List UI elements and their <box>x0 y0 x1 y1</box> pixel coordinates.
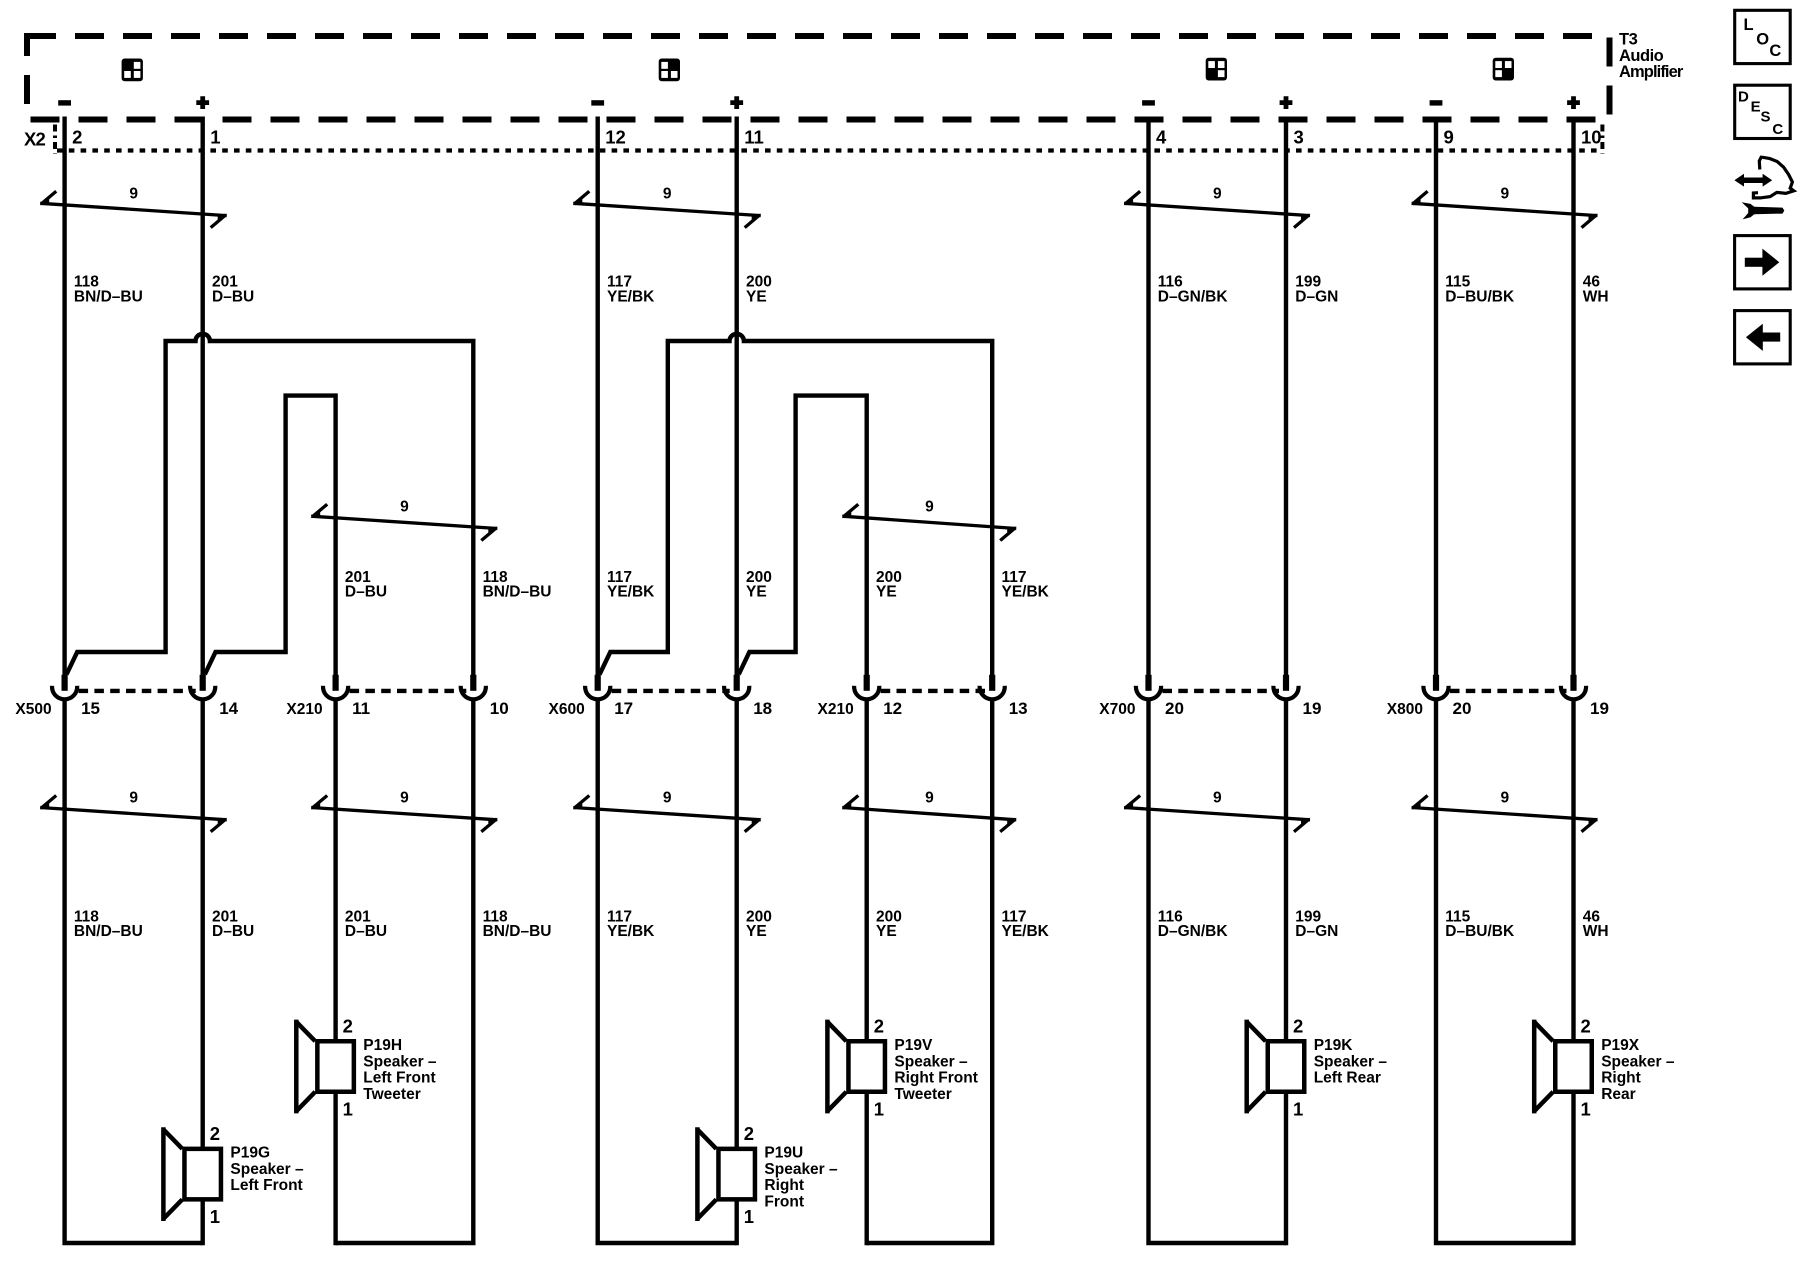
twisted pair symbol <box>40 191 228 227</box>
connector X600 <box>548 675 772 718</box>
speaker P19H symbol <box>296 1020 354 1114</box>
svg-text:Left Front: Left Front <box>230 1177 302 1194</box>
vehicle/service navigation icon <box>1734 157 1793 219</box>
wire 199 D-GN (T3 X2-3 down to connector) <box>1284 117 1288 677</box>
wire 46 WH (T3 X2-10 down to connector) <box>1571 117 1575 677</box>
back arrow navigation icon <box>1735 311 1791 364</box>
label 46 WH <box>1583 908 1609 940</box>
forward arrow navigation icon <box>1735 236 1791 289</box>
X800 mating face dashed line <box>1450 689 1567 693</box>
P19U name label <box>764 1145 838 1211</box>
wire P19V pin 1 to loop <box>865 1092 869 1246</box>
label 201 D-BU <box>212 908 254 940</box>
label 200 YE <box>746 569 772 601</box>
svg-text:WH: WH <box>1583 289 1609 306</box>
svg-text:2: 2 <box>210 1123 220 1144</box>
svg-text:Speaker –: Speaker – <box>894 1053 968 1070</box>
svg-text:YE: YE <box>876 584 897 601</box>
wire 200 YE (T3 X2-11 down to connector) <box>735 117 739 677</box>
svg-text:9: 9 <box>400 790 409 807</box>
svg-text:4: 4 <box>1156 127 1167 148</box>
svg-text:1: 1 <box>210 127 220 148</box>
wire P19G pin 1 to loop <box>200 1199 204 1245</box>
svg-text:YE/BK: YE/BK <box>607 584 655 601</box>
twisted pair symbol <box>40 796 228 832</box>
wire feed to P19V pin 2 <box>865 699 869 1042</box>
svg-text:1: 1 <box>744 1206 754 1227</box>
svg-text:2: 2 <box>1581 1016 1591 1037</box>
svg-text:11: 11 <box>744 127 764 148</box>
X210 mating face dashed line <box>881 689 986 693</box>
svg-text:YE/BK: YE/BK <box>607 923 655 940</box>
svg-text:18: 18 <box>753 699 772 718</box>
twisted pair symbol <box>842 796 1017 832</box>
wire return loop to P19H pin 1 <box>336 699 474 1244</box>
svg-text:BN/D–BU: BN/D–BU <box>483 923 552 940</box>
twisted pair symbol <box>1411 191 1598 227</box>
svg-text:Tweeter: Tweeter <box>894 1086 951 1103</box>
twisted pair symbol <box>311 796 498 832</box>
X210 pin 12 <box>854 675 879 700</box>
svg-text:9: 9 <box>1213 790 1222 807</box>
wire feed to P19K pin 2 <box>1284 699 1288 1042</box>
label 117 YE/BK <box>607 569 655 601</box>
svg-text:Front: Front <box>764 1194 804 1211</box>
svg-text:BN/D–BU: BN/D–BU <box>74 289 143 306</box>
svg-text:X210: X210 <box>286 701 322 718</box>
svg-text:9: 9 <box>663 186 672 203</box>
svg-text:D–GN: D–GN <box>1295 289 1338 306</box>
svg-text:S: S <box>1761 109 1771 126</box>
wire return loop to P19U pin 1 <box>598 699 737 1244</box>
svg-text:20: 20 <box>1453 699 1472 718</box>
svg-text:WH: WH <box>1583 923 1609 940</box>
twisted pair symbol <box>1411 796 1598 832</box>
svg-text:9: 9 <box>925 498 934 515</box>
svg-text:D–BU: D–BU <box>345 584 387 601</box>
svg-text:9: 9 <box>925 790 934 807</box>
wire 118 BN/D-BU (T3 X2-2 down to connector) <box>62 117 66 677</box>
svg-text:20: 20 <box>1165 699 1184 718</box>
svg-text:10: 10 <box>1581 127 1602 148</box>
svg-text:YE: YE <box>746 289 767 306</box>
svg-text:Speaker –: Speaker – <box>230 1161 304 1178</box>
svg-text:D–BU/BK: D–BU/BK <box>1445 289 1515 306</box>
wire 201 D-BU (T3 X2-1 down to connector) <box>200 117 204 677</box>
X210 pin 10 <box>461 675 486 700</box>
svg-text:2: 2 <box>343 1016 353 1037</box>
svg-text:P19U: P19U <box>764 1145 803 1162</box>
svg-text:1: 1 <box>210 1206 220 1227</box>
svg-text:Right: Right <box>764 1177 804 1194</box>
wire 115 D-BU/BK (T3 X2-9 down to connector) <box>1434 117 1438 677</box>
svg-text:1: 1 <box>343 1099 353 1120</box>
svg-text:C: C <box>1769 42 1781 60</box>
svg-text:Left Rear: Left Rear <box>1314 1070 1381 1087</box>
svg-text:P19V: P19V <box>894 1037 933 1054</box>
X700 pin 19 <box>1273 675 1298 700</box>
P19H name label <box>363 1037 437 1103</box>
twisted pair symbol <box>1124 191 1311 227</box>
wire P19U pin 1 to loop <box>735 1199 739 1245</box>
svg-text:Rear: Rear <box>1601 1086 1635 1103</box>
wire 117 YE/BK (T3 X2-12 down to connector) <box>596 117 600 677</box>
X600 pin 17 <box>585 675 610 700</box>
speaker position icon (front-right) <box>659 59 680 82</box>
speaker P19K symbol <box>1247 1020 1305 1114</box>
wire feed to P19G pin 2 <box>200 699 204 1150</box>
P19G name label <box>230 1145 304 1195</box>
svg-text:YE: YE <box>746 584 767 601</box>
svg-text:12: 12 <box>605 127 626 148</box>
label 200 YE <box>746 274 772 306</box>
polarity minus <box>1142 100 1155 105</box>
label 118 BN/D-BU <box>74 274 143 306</box>
speaker position icon (front-left) <box>122 59 143 82</box>
svg-text:X800: X800 <box>1387 701 1423 718</box>
svg-text:15: 15 <box>81 699 100 718</box>
svg-text:D: D <box>1738 89 1749 106</box>
polarity minus <box>58 100 71 105</box>
svg-text:19: 19 <box>1590 699 1609 718</box>
label 116 D-GN/BK <box>1158 274 1229 306</box>
amplifier T3 name label <box>1619 31 1684 82</box>
polarity plus <box>1280 96 1293 109</box>
svg-text:2: 2 <box>744 1123 754 1144</box>
label 201 D-BU <box>345 569 387 601</box>
label 200 YE <box>876 908 902 940</box>
X500 mating face dashed line <box>79 689 196 693</box>
svg-text:Speaker –: Speaker – <box>1601 1053 1675 1070</box>
svg-text:9: 9 <box>1500 790 1509 807</box>
X600 mating face dashed line <box>612 689 730 693</box>
label 115 D-BU/BK <box>1445 274 1515 306</box>
svg-text:D–BU: D–BU <box>212 289 254 306</box>
svg-text:D–GN/BK: D–GN/BK <box>1158 289 1229 306</box>
X210 pin 13 <box>980 675 1005 700</box>
X2 connector face dotted line <box>57 148 1600 152</box>
label 117 YE/BK <box>607 908 655 940</box>
svg-text:P19G: P19G <box>230 1145 270 1162</box>
svg-text:2: 2 <box>874 1016 884 1037</box>
svg-text:X2: X2 <box>24 129 46 150</box>
label 118 BN/D-BU <box>483 908 552 940</box>
svg-text:Speaker –: Speaker – <box>764 1161 838 1178</box>
speaker P19V symbol <box>827 1020 885 1114</box>
svg-text:YE: YE <box>746 923 767 940</box>
twisted pair symbol <box>311 504 498 540</box>
svg-text:D–BU: D–BU <box>212 923 254 940</box>
svg-text:1: 1 <box>874 1099 884 1120</box>
svg-text:11: 11 <box>352 699 370 718</box>
svg-text:1: 1 <box>1581 1099 1591 1120</box>
wire return loop to P19V pin 1 <box>867 699 993 1244</box>
svg-text:Right: Right <box>1601 1070 1641 1087</box>
speaker P19U symbol <box>697 1127 755 1221</box>
svg-text:T3: T3 <box>1619 31 1638 49</box>
X210 mating face dashed line <box>350 689 467 693</box>
label 199 D-GN <box>1295 274 1338 306</box>
svg-text:9: 9 <box>1213 186 1222 203</box>
wire feed to P19H pin 2 <box>333 699 337 1042</box>
connector X800 <box>1387 675 1609 718</box>
svg-text:12: 12 <box>883 699 902 718</box>
svg-text:9: 9 <box>129 186 138 203</box>
svg-text:Tweeter: Tweeter <box>363 1086 420 1103</box>
wire 117 YE/BK branch (X600-17 jog up/over to X210-13) with hop over 200 <box>600 334 993 677</box>
svg-text:D–GN/BK: D–GN/BK <box>1158 923 1229 940</box>
svg-text:Left Front: Left Front <box>363 1070 435 1087</box>
X700 pin 20 <box>1136 675 1161 700</box>
svg-text:Audio: Audio <box>1619 47 1664 65</box>
svg-text:X700: X700 <box>1099 701 1135 718</box>
X800 pin 20 <box>1423 675 1448 700</box>
label 118 BN/D-BU <box>74 908 143 940</box>
wire 200 YE branch (X600-18 jog up/over to X210-12) <box>739 396 867 677</box>
label 199 D-GN <box>1295 908 1338 940</box>
svg-text:Speaker –: Speaker – <box>1314 1053 1388 1070</box>
svg-text:L: L <box>1744 16 1754 34</box>
svg-text:X600: X600 <box>548 701 584 718</box>
svg-text:P19H: P19H <box>363 1037 402 1054</box>
LOC navigation icon <box>1735 10 1791 63</box>
label 117 YE/BK <box>1002 908 1050 940</box>
svg-text:1: 1 <box>1293 1099 1303 1120</box>
X600 pin 18 <box>724 675 749 700</box>
speaker position icon (rear-right) <box>1493 58 1514 81</box>
DESC navigation icon <box>1735 85 1791 138</box>
polarity minus <box>1430 100 1443 105</box>
svg-text:D–GN: D–GN <box>1295 923 1338 940</box>
P19X name label <box>1601 1037 1675 1103</box>
svg-text:YE/BK: YE/BK <box>1002 923 1050 940</box>
connector X210 <box>817 675 1027 718</box>
wire P19K pin 1 to loop <box>1284 1092 1288 1246</box>
P19K name label <box>1314 1037 1388 1087</box>
svg-text:BN/D–BU: BN/D–BU <box>74 923 143 940</box>
connector X210 <box>286 675 508 718</box>
svg-text:YE/BK: YE/BK <box>607 289 655 306</box>
svg-text:YE: YE <box>876 923 897 940</box>
wire feed to P19X pin 2 <box>1571 699 1575 1042</box>
speaker position icon (rear-left) <box>1206 58 1227 81</box>
svg-text:9: 9 <box>1500 186 1509 203</box>
label 201 D-BU <box>212 274 254 306</box>
svg-text:10: 10 <box>490 699 509 718</box>
speaker P19G symbol <box>163 1127 221 1221</box>
svg-text:9: 9 <box>1444 127 1454 148</box>
svg-text:P19K: P19K <box>1314 1037 1354 1054</box>
polarity minus <box>591 100 604 105</box>
svg-text:YE/BK: YE/BK <box>1002 584 1050 601</box>
X2 boundary dash-dot right <box>1600 125 1604 154</box>
label 117 YE/BK <box>1002 569 1050 601</box>
label 200 YE <box>746 908 772 940</box>
svg-text:3: 3 <box>1294 127 1304 148</box>
twisted pair symbol <box>1124 796 1311 832</box>
polarity plus <box>730 96 743 109</box>
amplifier T3 dashed outline <box>27 36 1610 120</box>
svg-text:9: 9 <box>129 790 138 807</box>
wire feed to P19U pin 2 <box>735 699 739 1150</box>
speaker P19X symbol <box>1534 1020 1592 1114</box>
twisted pair symbol <box>573 191 761 227</box>
label 46 WH <box>1583 274 1609 306</box>
wire P19X pin 1 to loop <box>1571 1092 1575 1246</box>
svg-text:2: 2 <box>72 127 82 148</box>
svg-text:17: 17 <box>614 699 633 718</box>
connector X700 <box>1099 675 1321 718</box>
svg-text:19: 19 <box>1303 699 1322 718</box>
X500 pin 15 <box>52 675 77 700</box>
svg-text:E: E <box>1751 99 1761 116</box>
svg-text:13: 13 <box>1009 699 1028 718</box>
twisted pair symbol <box>573 796 761 832</box>
wire 118 BN/D-BU branch (X500-15 jog up/over to X210-10) with hop over 201 <box>67 334 474 677</box>
label 200 YE <box>876 569 902 601</box>
X2 boundary dash-dot left <box>53 125 57 154</box>
X800 pin 19 <box>1561 675 1586 700</box>
X500 pin 14 <box>190 675 215 700</box>
polarity plus <box>196 96 209 109</box>
label 118 BN/D-BU <box>483 569 552 601</box>
wire return loop to P19X pin 1 <box>1436 699 1574 1244</box>
label 116 D-GN/BK <box>1158 908 1229 940</box>
svg-text:D–BU/BK: D–BU/BK <box>1445 923 1515 940</box>
svg-text:9: 9 <box>400 498 409 515</box>
X210 pin 11 <box>323 675 348 700</box>
svg-text:X500: X500 <box>15 701 51 718</box>
svg-text:9: 9 <box>663 790 672 807</box>
X700 mating face dashed line <box>1163 689 1280 693</box>
svg-text:Right Front: Right Front <box>894 1070 978 1087</box>
svg-text:2: 2 <box>1293 1016 1303 1037</box>
svg-text:O: O <box>1756 30 1769 48</box>
wire return loop to P19G pin 1 <box>65 699 203 1244</box>
svg-text:P19X: P19X <box>1601 1037 1640 1054</box>
svg-text:Amplifier: Amplifier <box>1619 63 1684 81</box>
svg-text:C: C <box>1772 121 1783 138</box>
P19V name label <box>894 1037 978 1103</box>
polarity plus <box>1567 96 1580 109</box>
svg-text:X210: X210 <box>817 701 853 718</box>
connector X500 <box>15 675 238 718</box>
label 115 D-BU/BK <box>1445 908 1515 940</box>
label 117 YE/BK <box>607 274 655 306</box>
wire 116 D-GN/BK (T3 X2-4 down to connector) <box>1146 117 1150 677</box>
svg-text:D–BU: D–BU <box>345 923 387 940</box>
wire return loop to P19K pin 1 <box>1149 699 1287 1244</box>
svg-text:BN/D–BU: BN/D–BU <box>483 584 552 601</box>
wire P19H pin 1 to loop <box>333 1092 337 1246</box>
svg-text:14: 14 <box>219 699 238 718</box>
label 201 D-BU <box>345 908 387 940</box>
svg-text:Speaker –: Speaker – <box>363 1053 437 1070</box>
wire 201 D-BU branch (X500-14 jog up/over to X210-11) <box>205 396 336 677</box>
twisted pair symbol <box>842 504 1017 540</box>
